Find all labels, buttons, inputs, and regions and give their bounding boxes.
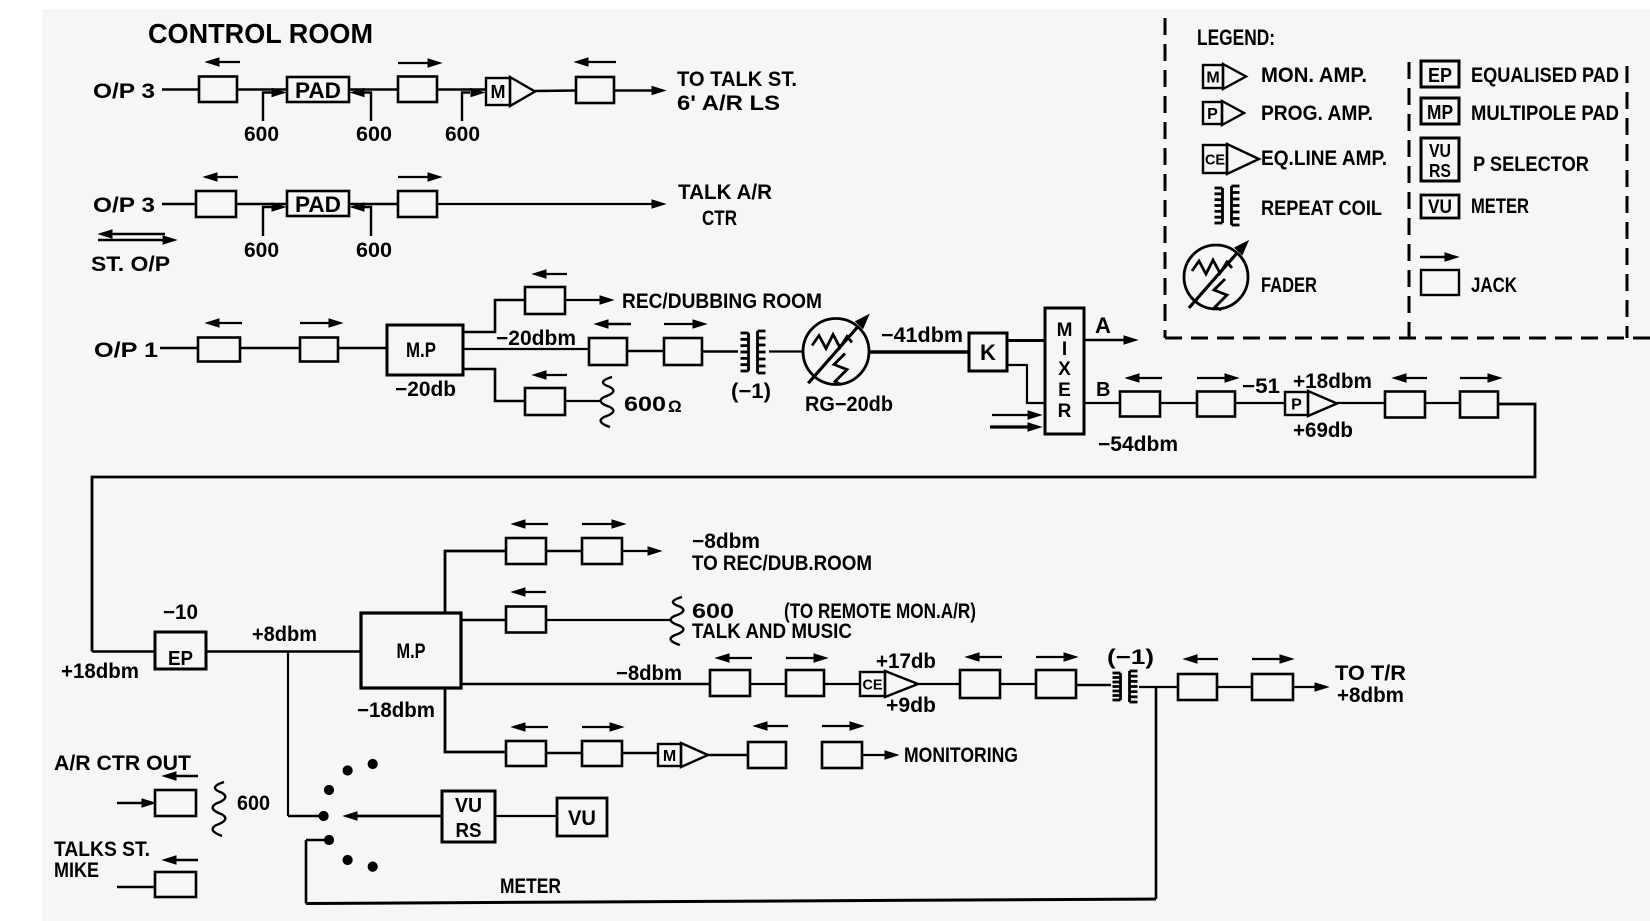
- svg-text:+18dbm: +18dbm: [61, 660, 139, 683]
- svg-text:EQUALISED PAD: EQUALISED PAD: [1471, 64, 1619, 87]
- svg-text:FADER: FADER: [1261, 274, 1317, 297]
- svg-text:CONTROL ROOM: CONTROL ROOM: [148, 18, 373, 49]
- svg-text:TALK AND MUSIC: TALK AND MUSIC: [692, 620, 852, 643]
- svg-text:600: 600: [237, 792, 270, 815]
- svg-text:TO TALK ST.: TO TALK ST.: [677, 68, 797, 91]
- svg-text:600: 600: [244, 239, 279, 262]
- svg-text:MULTIPOLE PAD: MULTIPOLE PAD: [1471, 102, 1619, 125]
- svg-text:MONITORING: MONITORING: [904, 744, 1018, 767]
- svg-text:MON. AMP.: MON. AMP.: [1261, 64, 1367, 87]
- svg-text:RG−20db: RG−20db: [805, 393, 893, 416]
- svg-text:LEGEND:: LEGEND:: [1197, 25, 1275, 50]
- svg-text:RS: RS: [456, 820, 482, 842]
- svg-text:TO T/R: TO T/R: [1335, 662, 1406, 685]
- svg-text:EP: EP: [1428, 65, 1452, 87]
- svg-text:M: M: [1206, 69, 1219, 86]
- svg-text:−51: −51: [1242, 375, 1280, 398]
- svg-text:MP: MP: [1427, 102, 1453, 124]
- svg-text:+8dbm: +8dbm: [252, 623, 317, 646]
- svg-text:RS: RS: [1429, 161, 1451, 181]
- svg-text:O/P 1: O/P 1: [94, 339, 158, 362]
- svg-text:600: 600: [244, 123, 279, 146]
- svg-text:CTR: CTR: [702, 207, 737, 230]
- svg-text:K: K: [980, 340, 996, 365]
- svg-text:M.P: M.P: [406, 339, 436, 362]
- svg-text:600: 600: [356, 123, 392, 146]
- svg-text:M: M: [663, 748, 676, 765]
- svg-text:METER: METER: [1471, 195, 1529, 218]
- svg-text:+17db: +17db: [876, 650, 936, 673]
- svg-text:R: R: [1058, 401, 1072, 422]
- svg-text:PAD: PAD: [295, 78, 341, 103]
- svg-text:M.P: M.P: [397, 640, 426, 663]
- svg-text:600: 600: [624, 393, 666, 416]
- svg-text:600: 600: [445, 123, 480, 146]
- svg-text:TALKS ST.: TALKS ST.: [54, 838, 150, 861]
- svg-text:PAD: PAD: [295, 192, 341, 217]
- svg-text:VU: VU: [1429, 141, 1451, 161]
- svg-text:MIKE: MIKE: [54, 859, 99, 882]
- svg-text:P: P: [1291, 396, 1302, 413]
- svg-text:PROG. AMP.: PROG. AMP.: [1261, 102, 1373, 125]
- svg-text:−20dbm: −20dbm: [496, 327, 576, 350]
- svg-text:M: M: [491, 82, 506, 102]
- svg-text:+8dbm: +8dbm: [1337, 684, 1404, 707]
- svg-text:O/P 3: O/P 3: [93, 80, 155, 103]
- svg-text:EQ.LINE AMP.: EQ.LINE AMP.: [1261, 147, 1387, 170]
- svg-text:ST. O/P: ST. O/P: [91, 253, 170, 276]
- svg-text:600: 600: [356, 239, 392, 262]
- svg-text:VU: VU: [1428, 197, 1452, 218]
- svg-text:−8dbm: −8dbm: [692, 530, 760, 553]
- svg-text:A: A: [1095, 313, 1111, 338]
- svg-text:VU: VU: [568, 807, 596, 830]
- svg-text:X: X: [1058, 359, 1071, 380]
- svg-text:REC/DUBBING ROOM: REC/DUBBING ROOM: [622, 290, 822, 313]
- svg-text:CE: CE: [863, 676, 883, 693]
- svg-text:B: B: [1096, 379, 1110, 401]
- svg-text:−20db: −20db: [395, 378, 456, 401]
- svg-text:REPEAT COIL: REPEAT COIL: [1261, 197, 1382, 220]
- svg-text:TALK A/R: TALK A/R: [678, 181, 772, 204]
- svg-text:I: I: [1062, 339, 1067, 360]
- svg-text:(−1): (−1): [731, 380, 771, 403]
- svg-text:P: P: [1207, 106, 1218, 123]
- svg-text:(−1): (−1): [1107, 646, 1154, 669]
- svg-text:Ω: Ω: [668, 397, 682, 416]
- svg-text:TO REC/DUB.ROOM: TO REC/DUB.ROOM: [692, 552, 872, 575]
- svg-text:−54dbm: −54dbm: [1098, 433, 1178, 456]
- svg-text:O/P 3: O/P 3: [93, 194, 155, 217]
- svg-text:EP: EP: [168, 648, 193, 670]
- svg-text:P SELECTOR: P SELECTOR: [1473, 153, 1589, 176]
- svg-text:+69db: +69db: [1293, 419, 1353, 442]
- svg-text:M: M: [1057, 320, 1073, 341]
- svg-text:+9db: +9db: [886, 694, 936, 717]
- svg-text:−8dbm: −8dbm: [616, 662, 682, 685]
- svg-text:JACK: JACK: [1471, 274, 1517, 297]
- svg-text:−18dbm: −18dbm: [357, 699, 435, 722]
- svg-text:6' A/R LS: 6' A/R LS: [677, 92, 780, 115]
- svg-text:−41dbm: −41dbm: [881, 324, 963, 347]
- svg-text:E: E: [1058, 380, 1071, 401]
- svg-text:+18dbm: +18dbm: [1293, 370, 1372, 393]
- svg-text:METER: METER: [500, 875, 561, 898]
- svg-text:A/R CTR OUT: A/R CTR OUT: [54, 752, 191, 775]
- svg-text:VU: VU: [455, 795, 482, 817]
- svg-text:−10: −10: [163, 601, 198, 624]
- svg-text:CE: CE: [1205, 151, 1225, 168]
